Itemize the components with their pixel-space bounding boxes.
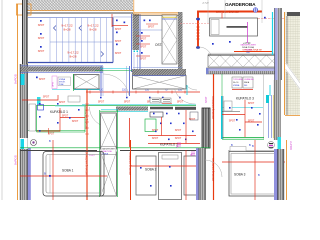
magenta marks near kupatilo2 bottom <box>177 143 195 155</box>
svg-text:SPOT: SPOT <box>38 50 45 53</box>
svg-text:SPOT: SPOT <box>115 40 122 43</box>
hall right of stairs: SPOT marks <box>112 14 132 55</box>
svg-text:OPIS: OPIS <box>53 82 55 87</box>
red bus vertical x213 <box>211 13 222 200</box>
svg-text:KUPATILO 3: KUPATILO 3 <box>236 97 254 101</box>
svg-text:SPOT: SPOT <box>43 96 50 99</box>
svg-text:SPOT: SPOT <box>140 38 147 41</box>
svg-text:SPOT: SPOT <box>38 37 45 40</box>
svg-text:8×28: 8×28 <box>90 28 97 32</box>
svg-text:SPOT: SPOT <box>148 26 155 29</box>
dimension line <box>180 23 242 25</box>
svg-text:SPOT: SPOT <box>152 137 159 140</box>
svg-text:VISINA: VISINA <box>102 153 109 156</box>
left wall lower (y 64-200) <box>14 64 31 200</box>
legend boxes <box>232 77 242 88</box>
svg-text:+17,20: +17,20 <box>243 42 251 45</box>
scan edge line <box>1 0 3 200</box>
svg-text:TUŠ KADA: TUŠ KADA <box>233 78 243 81</box>
svg-text:8×28: 8×28 <box>70 55 77 59</box>
door gap jambs <box>100 66 102 96</box>
svg-text:B: B <box>249 143 251 147</box>
svg-text:9+POS: 9+POS <box>14 74 18 84</box>
svg-text:SPOT: SPOT <box>59 101 66 104</box>
legend boxes <box>150 98 160 103</box>
light circle symbol <box>31 140 37 146</box>
svg-text:SPOT: SPOT <box>175 137 182 140</box>
svg-text:SPOT: SPOT <box>115 52 122 55</box>
svg-text:SPOT: SPOT <box>248 120 255 123</box>
svg-text:+17,22: +17,22 <box>202 3 210 5</box>
svg-text:B: B <box>258 173 260 177</box>
svg-text:SPOT: SPOT <box>189 118 196 121</box>
fixtures <box>145 119 156 132</box>
lintel boxes with X <box>74 75 99 90</box>
svg-text:J+PO8: J+PO8 <box>289 141 293 150</box>
svg-text:SPOT: SPOT <box>248 102 255 105</box>
orange lines top right of hatch strip <box>134 0 180 14</box>
red bus <box>198 12 262 48</box>
svg-text:90×90: 90×90 <box>233 81 238 84</box>
right wall of SOBA3 <box>274 140 293 200</box>
svg-text:SPOT: SPOT <box>115 28 122 31</box>
closet top <box>210 18 258 36</box>
svg-text:B: B <box>252 144 254 148</box>
svg-text:300: 300 <box>244 85 247 87</box>
svg-text:SPOT: SPOT <box>39 78 46 81</box>
svg-text:SPOT: SPOT <box>124 102 131 104</box>
left wall upper <box>22 0 27 67</box>
cyan line <box>272 12 274 55</box>
svg-text:SPOT: SPOT <box>98 102 105 104</box>
svg-text:GARDEROBA: GARDEROBA <box>225 2 256 8</box>
door arc garderoba <box>199 47 212 60</box>
svg-text:SPOT: SPOT <box>152 129 159 132</box>
legend boxes below stairs <box>52 76 71 90</box>
svg-text:B: B <box>44 172 46 176</box>
svg-text:SPOT: SPOT <box>205 96 208 103</box>
svg-text:110: 110 <box>122 89 127 92</box>
svg-text:UGRADNA: UGRADNA <box>244 78 254 81</box>
svg-text:KUPATILO 1: KUPATILO 1 <box>50 110 68 114</box>
long X closet <box>208 55 278 67</box>
svg-text:SPOT: SPOT <box>140 58 147 61</box>
svg-text:PLAF.: PLAF. <box>59 83 64 86</box>
stair labels <box>61 24 99 59</box>
svg-text:SOBA 3: SOBA 3 <box>234 173 246 177</box>
svg-text:SPOT: SPOT <box>140 46 147 49</box>
svg-text:P=5,2: P=5,2 <box>89 155 96 157</box>
svg-text:SPOT: SPOT <box>38 24 45 27</box>
svg-text:SPOT: SPOT <box>175 129 182 132</box>
svg-text:SOBA 1: SOBA 1 <box>62 169 74 173</box>
svg-text:KADA: KADA <box>244 81 250 84</box>
svg-text:SPOT: SPOT <box>72 120 79 123</box>
wall band below closet <box>206 68 278 71</box>
svg-text:B: B <box>49 139 51 143</box>
svg-text:SPOT: SPOT <box>48 133 55 136</box>
landing SPOT marks <box>40 20 42 48</box>
svg-text:VISINA: VISINA <box>233 84 240 87</box>
door arc from corridor into kupatilo1 area <box>90 107 110 127</box>
red bus x87 and x130 with rotated text <box>85 90 134 201</box>
svg-text:SPOT: SPOT <box>229 120 236 123</box>
svg-text:9+POS: 9+POS <box>14 155 18 165</box>
svg-text:SPOT: SPOT <box>177 102 184 104</box>
svg-text:SOBA 2: SOBA 2 <box>145 168 157 172</box>
svg-text:8×28: 8×28 <box>64 28 71 32</box>
svg-text:SPOT: SPOT <box>62 115 69 118</box>
right purple wall band vertical <box>275 8 278 80</box>
